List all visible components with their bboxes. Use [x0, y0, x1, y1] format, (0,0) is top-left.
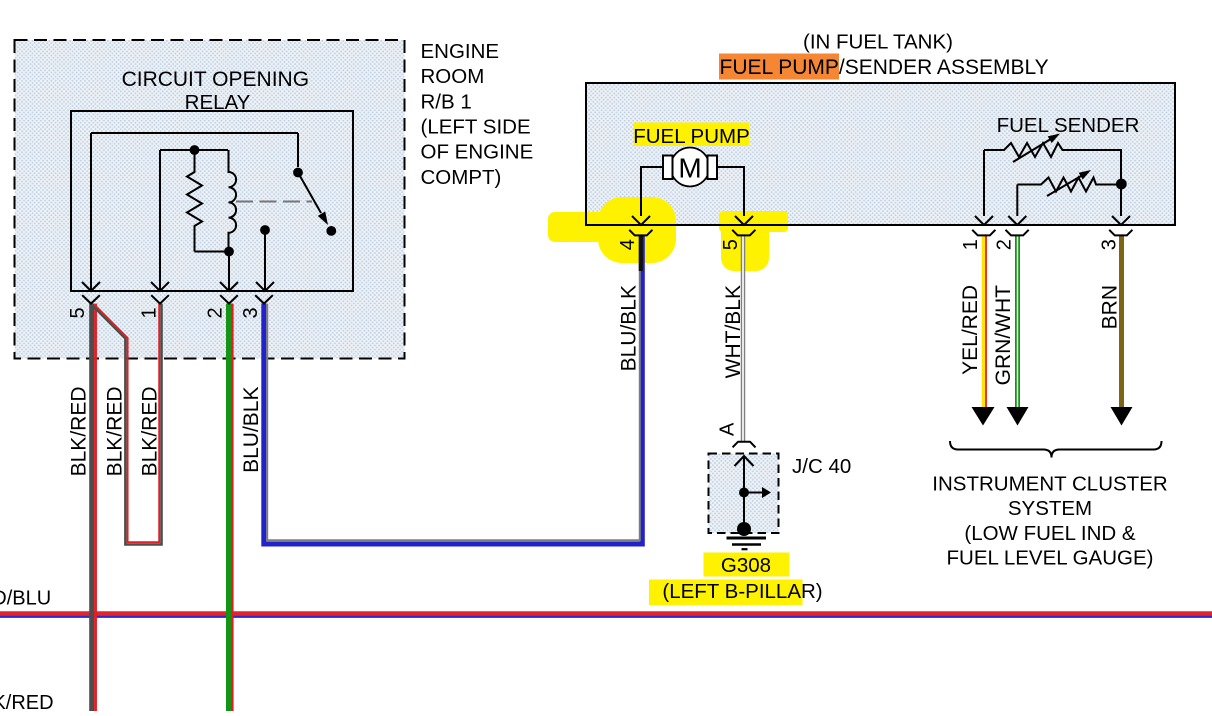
- svg-text:BLU/BLK: BLU/BLK: [240, 387, 263, 473]
- svg-text:SYSTEM: SYSTEM: [1008, 497, 1092, 520]
- svg-text:2: 2: [993, 239, 1015, 250]
- svg-text:3: 3: [240, 307, 262, 318]
- svg-text:RELAY: RELAY: [185, 91, 251, 114]
- svg-text:WHT/BLK: WHT/BLK: [722, 285, 745, 378]
- svg-text:5: 5: [67, 307, 89, 318]
- svg-text:CIRCUIT OPENING: CIRCUIT OPENING: [122, 68, 309, 91]
- svg-text:5: 5: [720, 239, 742, 250]
- svg-text:(IN FUEL TANK): (IN FUEL TANK): [803, 31, 953, 54]
- svg-text:(LEFT SIDE: (LEFT SIDE: [421, 116, 531, 139]
- svg-text:G308: G308: [721, 554, 771, 577]
- svg-text:FUEL SENDER: FUEL SENDER: [997, 114, 1140, 137]
- svg-text:BRN: BRN: [1099, 285, 1122, 329]
- svg-text:M: M: [678, 153, 701, 184]
- svg-text:BLK/RED: BLK/RED: [0, 692, 54, 711]
- svg-text:BLU/BLK: BLU/BLK: [618, 285, 641, 371]
- svg-text:INSTRUMENT CLUSTER: INSTRUMENT CLUSTER: [932, 473, 1167, 496]
- svg-text:(LOW FUEL IND &: (LOW FUEL IND &: [964, 522, 1136, 545]
- svg-text:3: 3: [1099, 239, 1121, 250]
- svg-text:ROOM: ROOM: [421, 65, 485, 88]
- svg-text:BLK/RED: BLK/RED: [104, 387, 127, 477]
- svg-text:COMPT): COMPT): [421, 166, 502, 189]
- svg-text:2: 2: [205, 307, 227, 318]
- svg-text:FUEL PUMP/SENDER ASSEMBLY: FUEL PUMP/SENDER ASSEMBLY: [720, 56, 1049, 79]
- svg-text:FUEL LEVEL GAUGE): FUEL LEVEL GAUGE): [947, 547, 1154, 570]
- svg-text:GRN/WHT: GRN/WHT: [992, 285, 1015, 385]
- svg-text:1: 1: [960, 239, 982, 250]
- svg-text:4: 4: [617, 239, 639, 250]
- svg-text:J/C 40: J/C 40: [792, 455, 851, 478]
- svg-text:OF ENGINE: OF ENGINE: [421, 141, 534, 164]
- svg-text:FUEL PUMP: FUEL PUMP: [633, 125, 750, 148]
- svg-text:BLK/RED: BLK/RED: [68, 387, 91, 477]
- svg-text:A: A: [717, 422, 739, 436]
- svg-text:RED/BLU: RED/BLU: [0, 588, 51, 610]
- svg-text:R/B 1: R/B 1: [421, 90, 472, 113]
- svg-text:YEL/RED: YEL/RED: [959, 285, 982, 375]
- svg-text:ENGINE: ENGINE: [421, 40, 500, 63]
- svg-text:1: 1: [139, 307, 161, 318]
- svg-text:(LEFT B-PILLAR): (LEFT B-PILLAR): [662, 580, 822, 603]
- svg-text:BLK/RED: BLK/RED: [139, 387, 162, 477]
